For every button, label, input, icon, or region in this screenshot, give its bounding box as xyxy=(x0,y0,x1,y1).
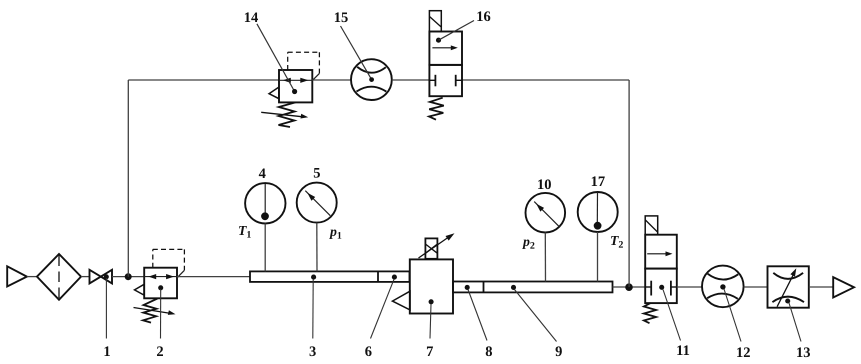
label 15 xyxy=(334,10,349,26)
node B junction xyxy=(625,283,633,291)
label 7 xyxy=(426,344,433,360)
label leader 9 xyxy=(511,285,557,342)
pressure regulator 2 xyxy=(134,249,185,322)
shut-off valve 1 xyxy=(90,270,113,284)
wire filter to valve 1 xyxy=(81,276,90,278)
svg-text:13: 13 xyxy=(796,345,811,361)
label 17 xyxy=(591,174,606,190)
svg-text:2: 2 xyxy=(156,344,163,360)
thermometer 17 xyxy=(578,192,618,282)
exhaust triangle xyxy=(833,277,854,297)
label leader 15 xyxy=(341,26,375,82)
svg-text:14: 14 xyxy=(244,10,259,26)
svg-text:6: 6 xyxy=(365,344,372,360)
wire throttle 13 to exhaust xyxy=(809,286,833,288)
label leader 13 xyxy=(785,298,801,341)
svg-text:17: 17 xyxy=(591,174,606,190)
svg-text:12: 12 xyxy=(736,345,751,361)
svg-text:1: 1 xyxy=(103,344,110,360)
svg-text:10: 10 xyxy=(537,177,552,193)
flow control valve 11 xyxy=(644,216,677,323)
measuring tube 3 xyxy=(250,271,410,282)
label leader 14 xyxy=(257,24,297,94)
label 2 xyxy=(156,344,163,360)
flow meter 15 xyxy=(351,59,392,100)
label 1 xyxy=(103,344,110,360)
adjustable throttle 13 xyxy=(768,266,809,307)
label leader 7 xyxy=(429,299,434,338)
shut-off valve 16 xyxy=(429,11,462,120)
label leader 12 xyxy=(720,284,741,341)
label leader 3 xyxy=(311,275,316,339)
svg-text:5: 5 xyxy=(313,165,320,181)
label 10 xyxy=(537,177,552,193)
test valve 7 xyxy=(392,233,454,313)
wire tube 9 to valve 11 xyxy=(613,286,646,288)
label leader 16 xyxy=(436,21,474,43)
svg-text:7: 7 xyxy=(426,344,433,360)
pressure regulator 14 xyxy=(261,52,319,127)
label 4 xyxy=(259,166,266,182)
wire flow meter 15 to valve 16 xyxy=(392,79,430,81)
wire supply to filter xyxy=(27,276,37,278)
wire valve 11 to flow meter 12 xyxy=(677,286,702,288)
label leader 8 xyxy=(465,285,487,341)
label p1 xyxy=(329,224,342,242)
label 5 xyxy=(313,165,320,181)
label p2 xyxy=(522,234,535,252)
node A junction xyxy=(125,273,132,280)
wire top line right segment xyxy=(462,79,629,81)
supply source triangle xyxy=(7,266,27,286)
svg-text:3: 3 xyxy=(309,344,316,360)
wire riser node B up xyxy=(628,80,630,287)
pressure gauge 10 xyxy=(526,193,566,282)
measuring tube 8 and 9 xyxy=(453,282,613,293)
label 12 xyxy=(736,345,751,361)
svg-text:8: 8 xyxy=(485,344,492,360)
wire riser node A up xyxy=(127,80,129,277)
wire box 14 to flow meter 15 xyxy=(312,79,351,81)
label 13 xyxy=(796,345,811,361)
filter (diamond) xyxy=(37,254,81,300)
label 3 xyxy=(309,344,316,360)
svg-text:15: 15 xyxy=(334,10,349,26)
svg-text:p2: p2 xyxy=(522,234,535,252)
svg-text:p1: p1 xyxy=(329,224,342,242)
svg-text:T2: T2 xyxy=(610,233,623,251)
svg-text:T1: T1 xyxy=(238,223,251,241)
svg-text:16: 16 xyxy=(476,9,491,25)
wire flow meter 12 to throttle 13 xyxy=(744,286,768,288)
label leader 6 xyxy=(371,275,397,339)
thermometer 4 xyxy=(245,183,285,271)
label leader 2 xyxy=(158,285,163,338)
pressure gauge 5 xyxy=(297,183,337,272)
label T2 xyxy=(610,233,623,251)
label leader 1 xyxy=(104,274,109,338)
flow meter 12 xyxy=(702,266,744,308)
label 14 xyxy=(244,10,259,26)
label 9 xyxy=(555,344,562,360)
wire regulator 2 to tube 3 xyxy=(177,276,250,278)
svg-text:9: 9 xyxy=(555,344,562,360)
label 16 xyxy=(476,9,491,25)
svg-text:4: 4 xyxy=(259,166,266,182)
label 11 xyxy=(676,343,690,359)
wire valve 1 to regulator 2 xyxy=(112,276,144,278)
label leader 11 xyxy=(659,285,680,341)
wire top line left segment xyxy=(128,79,279,81)
label 6 xyxy=(365,344,372,360)
svg-text:11: 11 xyxy=(676,343,690,359)
label T1 xyxy=(238,223,251,241)
label 8 xyxy=(485,344,492,360)
